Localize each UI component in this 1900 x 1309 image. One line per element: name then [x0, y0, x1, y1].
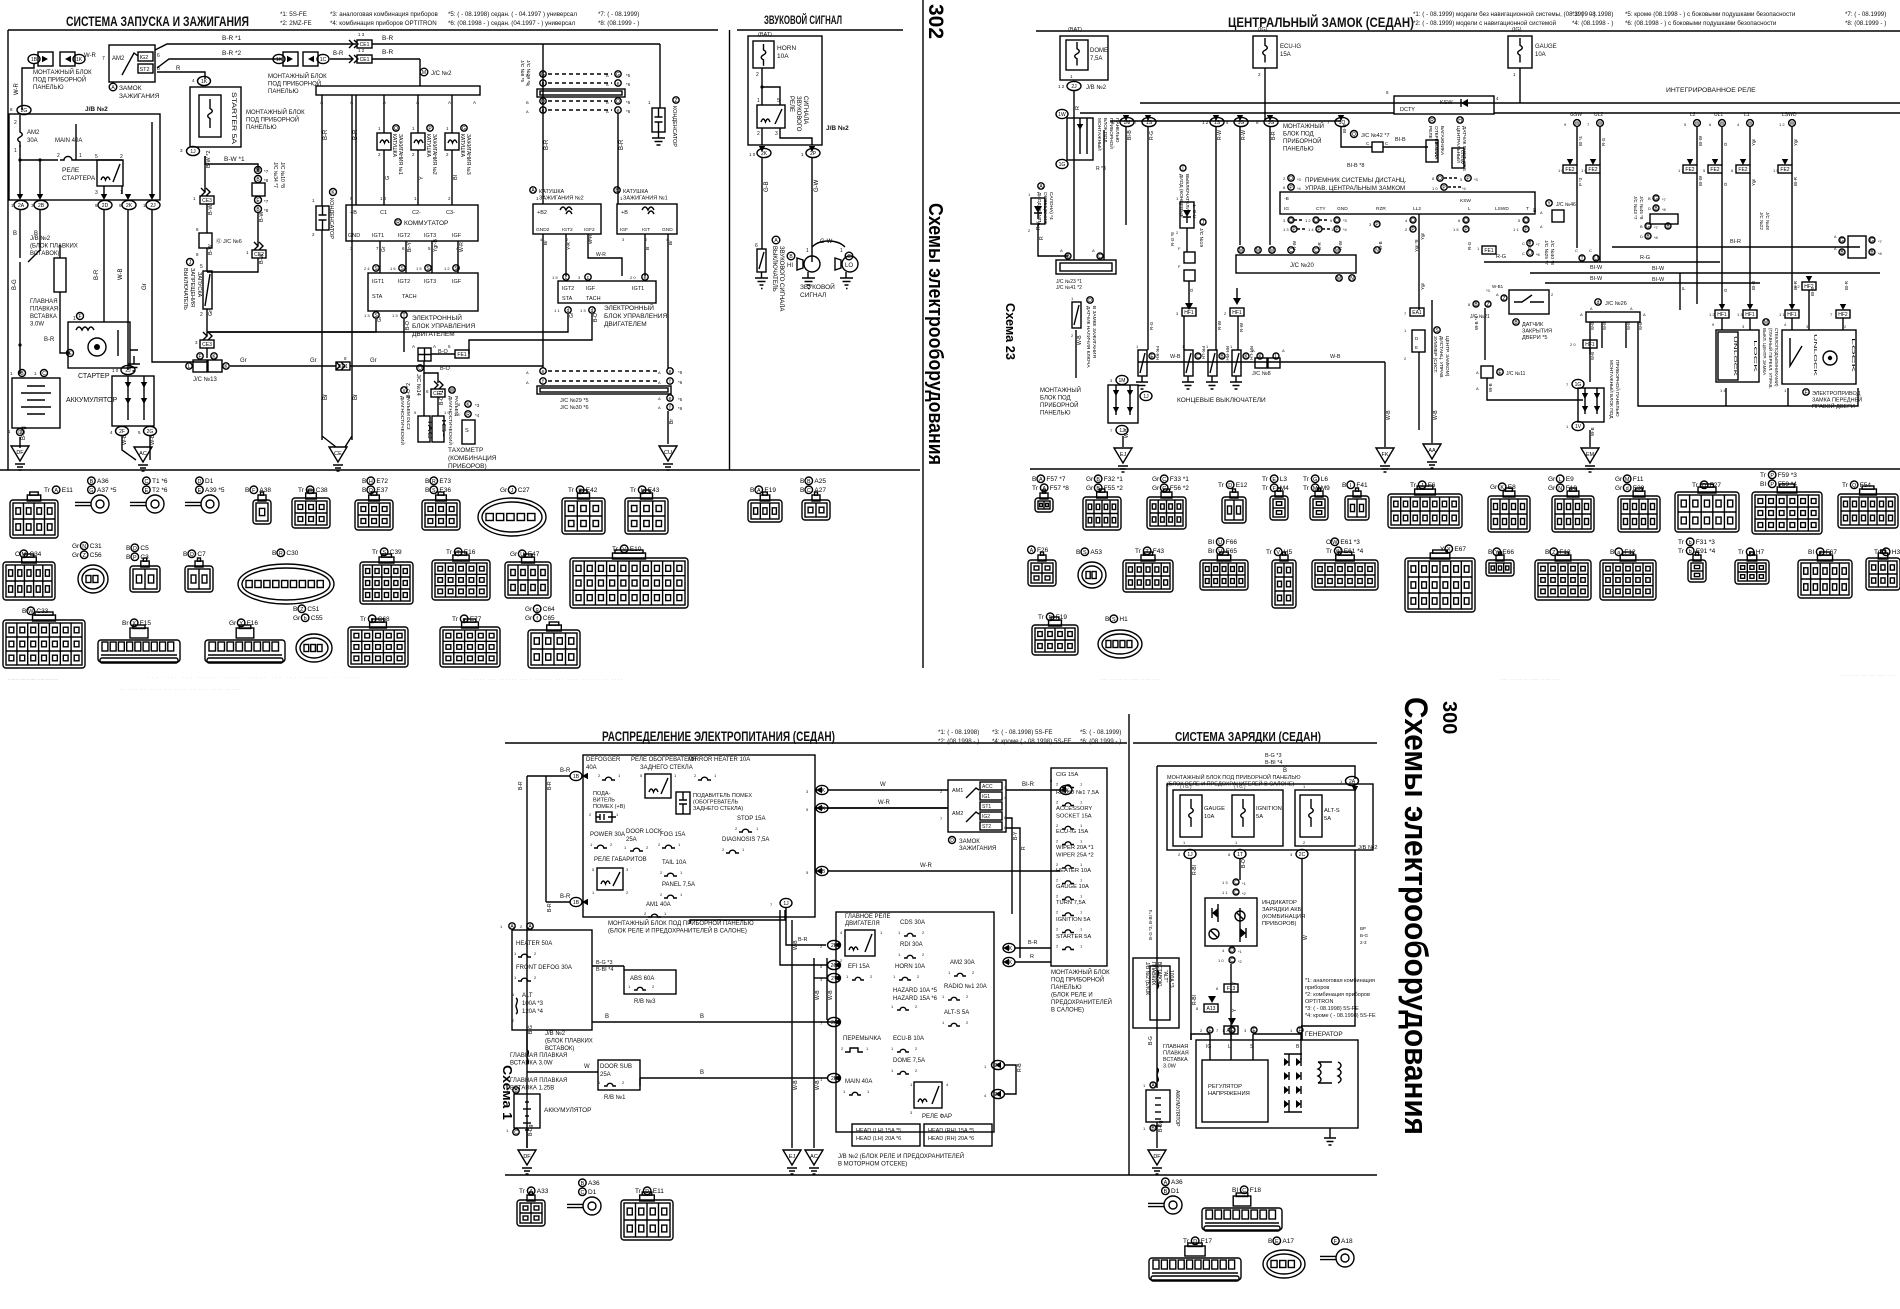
engine JB right ovals	[984, 1060, 1005, 1098]
svg-text:1 3: 1 3	[1222, 880, 1228, 885]
svg-text:Gr: Gr	[1152, 476, 1160, 483]
wire Ygr vertical	[1418, 214, 1420, 310]
svg-text:*8: (08.1999 - ): *8: (08.1999 - )	[1845, 20, 1886, 27]
svg-text:Ygr: Ygr	[1420, 232, 1425, 240]
small box GSW	[1452, 148, 1465, 168]
horn low	[835, 256, 858, 272]
svg-text:OPTITRON: OPTITRON	[1305, 999, 1333, 1005]
horn high	[797, 256, 820, 272]
svg-text:W-R: W-R	[596, 252, 606, 258]
svg-text:HEATER 10A: HEATER 10A	[1056, 868, 1091, 874]
svg-text:J/C №41 *2: J/C №41 *2	[1056, 285, 1082, 291]
svg-text:Br: Br	[543, 240, 549, 245]
buzzer D E boxes	[1404, 328, 1425, 361]
relay horn	[757, 98, 785, 137]
svg-text:ЦЕНТРАЛЬНЫЙ ЗАМОК (СЕДАН): ЦЕНТРАЛЬНЫЙ ЗАМОК (СЕДАН)	[1228, 13, 1414, 30]
svg-text:B-O: B-O	[440, 366, 451, 372]
svg-text:G-W: G-W	[814, 179, 820, 192]
ground AC	[134, 447, 152, 471]
svg-text:*2: (08.1998 - ): *2: (08.1998 - )	[938, 738, 979, 745]
svg-text:BI-B: BI-B	[1810, 287, 1815, 296]
fuse MAIN 40A	[18, 138, 122, 162]
svg-text:DOME: DOME	[1090, 48, 1108, 54]
fuse defogger	[598, 773, 621, 780]
wire B second	[28, 210, 40, 262]
svg-text:МОНТАЖНЫЙ БЛОК: МОНТАЖНЫЙ БЛОК	[1051, 968, 1110, 976]
svg-text:*5: *5	[626, 100, 631, 105]
svg-text:BP: BP	[1360, 926, 1366, 931]
svg-text:STOP 15A: STOP 15A	[737, 816, 765, 822]
verticals W-B center with grounds	[792, 920, 834, 1148]
svg-text:TACH: TACH	[586, 296, 601, 302]
dashed junction bus top right	[519, 60, 631, 114]
svg-text:B: B	[1076, 549, 1080, 556]
svg-text:МОНТАЖНЫЙ: МОНТАЖНЫЙ	[1040, 386, 1081, 394]
svg-text:HAZARD 10A *5: HAZARD 10A *5	[893, 988, 938, 994]
svg-text:1: 1	[806, 248, 809, 254]
svg-text:ЦЕНТР. ЗАМКОМ): ЦЕНТР. ЗАМКОМ)	[1444, 336, 1450, 377]
svg-text:Br-Y: Br-Y	[407, 241, 413, 252]
svg-text:BI-W: BI-W	[1652, 266, 1665, 272]
svg-text:Gr: Gr	[500, 487, 508, 494]
svg-text:Tr: Tr	[519, 1188, 526, 1195]
fuse panel right box	[1051, 768, 1107, 966]
relay bus top line	[1140, 102, 1900, 104]
svg-text:(ОБОГРЕВАТЕЛЬ: (ОБОГРЕВАТЕЛЬ	[693, 800, 739, 806]
connector F6	[1410, 481, 1436, 489]
wire TACH B-O down	[403, 319, 405, 352]
svg-text:ST1: ST1	[982, 804, 991, 810]
svg-text:UL2: UL2	[1594, 112, 1603, 118]
svg-text:AC: AC	[139, 451, 147, 457]
svg-text:J/C №11: J/C №11	[1506, 371, 1526, 377]
svg-text:B-O *1: B-O *1	[439, 390, 445, 405]
fuse IGNITION 5A charging	[1232, 784, 1282, 845]
svg-text:Tr: Tr	[1262, 485, 1269, 492]
svg-text:W-R: W-R	[459, 242, 465, 252]
fuse AM1 40A	[644, 902, 671, 917]
label LO	[840, 248, 853, 269]
svg-text:... .... ... ...... .... .....: ... .... ... ...... .... ...... ... ....…	[120, 686, 240, 691]
svg-text:DF: DF	[16, 450, 24, 456]
svg-text:ВЫКЛЮЧАТЕЛИ): ВЫКЛЮЧАТЕЛИ)	[1184, 174, 1190, 213]
starter motor	[68, 313, 138, 381]
svg-text:W-B: W-B	[793, 940, 799, 950]
svg-text:B: B	[1648, 196, 1651, 201]
relay headlight	[910, 1082, 952, 1120]
junction A13 boxes	[1196, 996, 1238, 1034]
svg-text:1: 1	[79, 153, 82, 159]
svg-text:W: W	[1575, 121, 1580, 127]
svg-text:*1: аналоговая комбинация: *1: аналоговая комбинация	[1305, 978, 1375, 984]
connector C38	[298, 486, 328, 494]
svg-text:J/C №26: J/C №26	[1605, 301, 1627, 307]
svg-text:C31: C31	[90, 543, 102, 550]
svg-text:J/C №2: J/C №2	[431, 70, 452, 77]
svg-text:B: B	[126, 545, 130, 552]
svg-text:Q: Q	[1289, 218, 1293, 224]
svg-text:ПОД ПРИБОРНОЙ: ПОД ПРИБОРНОЙ	[33, 76, 86, 84]
svg-text:25A: 25A	[600, 1072, 611, 1078]
svg-text:ПРИБОРНОЙ: ПРИБОРНОЙ	[1040, 401, 1078, 409]
svg-text:R: R	[396, 220, 400, 226]
svg-text:BI-B: BI-B	[1127, 130, 1133, 140]
connector E9 F10	[1548, 475, 1574, 483]
svg-text:ПРИБОРНОЙ: ПРИБОРНОЙ	[1283, 137, 1321, 145]
svg-text:Tr: Tr	[298, 487, 305, 494]
svg-text:МОНТАЖНЫЙ БЛОК: МОНТАЖНЫЙ БЛОК	[33, 68, 92, 76]
svg-text:E11: E11	[653, 1188, 664, 1195]
svg-text:5: 5	[95, 154, 98, 160]
svg-text:W-R: W-R	[920, 863, 933, 869]
svg-text:Tr: Tr	[1760, 472, 1767, 479]
svg-text:B-R: B-R	[619, 139, 625, 150]
svg-text:Q: Q	[1411, 218, 1415, 224]
svg-text:Gr: Gr	[1490, 484, 1498, 491]
connector F18	[1232, 1186, 1261, 1194]
svg-text:1J: 1J	[1143, 394, 1149, 400]
svg-text:ГЛАВНАЯ: ГЛАВНАЯ	[30, 299, 58, 305]
connector F41	[1342, 481, 1368, 489]
bus bar	[316, 86, 480, 95]
svg-text:ПРЕДОХРАНИТЕЛЕЙ: ПРЕДОХРАНИТЕЛЕЙ	[1051, 998, 1112, 1006]
svg-text:F18: F18	[1250, 1187, 1262, 1194]
svg-text:EM: EM	[1586, 452, 1595, 458]
svg-text:*3: ( - 08.1998) 5S-FE: *3: ( - 08.1998) 5S-FE	[1305, 1006, 1359, 1012]
svg-text:B: B	[1610, 549, 1614, 556]
svg-text:(BAT): (BAT)	[758, 32, 772, 38]
svg-text:BI-B: BI-B	[1342, 124, 1347, 133]
svg-text:КОНДЕНСАТОР: КОНДЕНСАТОР	[671, 106, 677, 147]
svg-text:HF1: HF1	[1184, 310, 1194, 316]
svg-text:Gr: Gr	[142, 283, 148, 290]
fuse ABS 60A box	[624, 970, 676, 1005]
svg-text:R-G: R-G	[1149, 321, 1154, 330]
left JB fusible links box	[512, 930, 592, 1030]
svg-text:B-G *3: B-G *3	[1265, 753, 1282, 759]
svg-text:AM1 40A: AM1 40A	[646, 902, 671, 908]
svg-text:B-G: B-G	[12, 279, 18, 290]
ECM right box	[558, 281, 656, 303]
label J/B No2 fusible charging left	[1144, 962, 1162, 995]
svg-text:B: B	[1032, 476, 1036, 483]
connector E10	[612, 545, 642, 553]
junction block J/B No2 main	[9, 114, 160, 200]
svg-text:302: 302	[924, 4, 947, 39]
svg-text:H: H	[1458, 118, 1462, 124]
svg-text:B-R: B-R	[560, 768, 571, 774]
connector C31 C56 oval	[72, 542, 102, 550]
connector E66	[1488, 548, 1514, 556]
wire W-B star4 door sensor	[1484, 308, 1486, 360]
svg-text:1J: 1J	[1187, 852, 1193, 858]
svg-text:A: A	[448, 100, 451, 105]
svg-text:1: 1	[73, 316, 76, 322]
svg-text:DOOR SUB: DOOR SUB	[600, 1064, 632, 1070]
connector E11	[44, 486, 73, 494]
svg-text:BI-R: BI-R	[1022, 782, 1035, 788]
ground starter	[128, 356, 140, 371]
svg-text:B: B	[526, 100, 529, 105]
svg-text:B: B	[1105, 616, 1109, 623]
receiver header pins	[1283, 175, 1479, 191]
svg-text:ЗАЖИГАНИЯ: ЗАЖИГАНИЯ	[119, 93, 160, 100]
fuse ALT 100A	[512, 992, 544, 1023]
ground EJ	[1114, 448, 1132, 472]
svg-text:B-R: B-R	[560, 894, 571, 900]
svg-text:1M: 1M	[1119, 378, 1126, 384]
generator internal pins	[1206, 1044, 1300, 1050]
svg-text:SOCKET 15A: SOCKET 15A	[1056, 814, 1092, 820]
fuse FOG 15A	[658, 832, 685, 848]
svg-text:Tr: Tr	[1262, 476, 1269, 483]
svg-text:GND: GND	[1337, 206, 1348, 212]
junction JC 43 45 column	[1633, 195, 1678, 240]
svg-text:Tr: Tr	[446, 549, 453, 556]
svg-text:1 2: 1 2	[444, 266, 450, 271]
wire W down from ALT-S	[1301, 859, 1303, 1040]
svg-text:Q: Q	[1524, 218, 1528, 224]
svg-text:B-O: B-O	[405, 321, 411, 330]
junction J/C No2 label	[420, 68, 452, 77]
svg-text:Q: Q	[1464, 218, 1468, 224]
generator box	[1196, 1040, 1358, 1128]
wire B-Dg battery down	[8, 426, 27, 448]
svg-text:B-R: B-R	[1271, 131, 1277, 140]
svg-text:ГЛАВНОЕ РЕЛЕ: ГЛАВНОЕ РЕЛЕ	[845, 914, 890, 920]
svg-text:Tr: Tr	[1303, 476, 1310, 483]
svg-text:F55 *2: F55 *2	[1104, 485, 1124, 492]
connector E73 E36	[425, 477, 451, 485]
fuse FRONT DEFOG 30A	[514, 965, 572, 981]
svg-text:D1: D1	[588, 1189, 597, 1196]
ring terminal A18	[1332, 1237, 1353, 1245]
svg-text:Tr: Tr	[635, 1188, 642, 1195]
svg-text:2K: 2K	[126, 203, 133, 209]
junction JC No21	[1468, 301, 1491, 320]
svg-text:ДВИГАТЕЛЕМ: ДВИГАТЕЛЕМ	[604, 321, 647, 328]
ECM bottom pins	[364, 312, 407, 319]
svg-text:J/C №48: J/C №48	[1765, 212, 1770, 230]
wire B-Dg power distr	[526, 1128, 528, 1148]
svg-text:E: E	[198, 488, 202, 494]
ignition coil No2 right	[533, 196, 601, 242]
svg-text:Y-R: Y-R	[566, 242, 572, 250]
svg-text:1 1: 1 1	[1222, 890, 1228, 895]
svg-text:1 9: 1 9	[444, 410, 450, 415]
svg-text:ТАХОМЕТР: ТАХОМЕТР	[448, 447, 483, 454]
svg-text:ИНТЕГРИРОВАННОЕ РЕЛЕ: ИНТЕГРИРОВАННОЕ РЕЛЕ	[1666, 87, 1756, 94]
svg-text:DF: DF	[1153, 1154, 1161, 1160]
svg-text:IG-: IG-	[440, 419, 446, 438]
svg-text:W: W	[1790, 121, 1795, 127]
svg-text:7: 7	[102, 56, 105, 62]
svg-text:M: M	[1625, 477, 1630, 483]
connector C51 C55 oval	[293, 605, 320, 613]
charge indicator box	[1205, 898, 1257, 946]
svg-text:РЕЛЕ: РЕЛЕ	[788, 96, 794, 112]
svg-text:E: E	[145, 488, 149, 494]
junction block 2J	[110, 365, 157, 435]
svg-text:FE2: FE2	[1565, 167, 1574, 173]
wire B-O ECM right	[469, 314, 592, 354]
svg-text:F: F	[78, 314, 81, 320]
battery charging	[1143, 1082, 1180, 1132]
wire B left	[19, 210, 21, 258]
svg-text:b: b	[1689, 540, 1692, 546]
svg-text:1 8: 1 8	[454, 412, 460, 417]
svg-text:ЗАЖИГАНИЯ №3: ЗАЖИГАНИЯ №3	[465, 134, 471, 175]
svg-text:P: P	[1770, 482, 1774, 488]
svg-text:АККУМУЛЯТОР: АККУМУЛЯТОР	[1174, 1090, 1180, 1127]
svg-text:DOME 7,5A: DOME 7,5A	[893, 1058, 925, 1064]
svg-text:СТАРТЕРА: СТАРТЕРА	[62, 175, 96, 182]
svg-text:M: M	[422, 70, 426, 76]
svg-text:J/C №13: J/C №13	[193, 376, 217, 383]
svg-text:IG2: IG2	[982, 814, 990, 820]
svg-text:*1: ( - 08.1998): *1: ( - 08.1998)	[938, 729, 979, 736]
generator diode bridge	[1284, 1054, 1302, 1112]
svg-text:MAIN 40A: MAIN 40A	[845, 1079, 872, 1085]
svg-text:C: C	[1289, 248, 1293, 254]
svg-text:C: C	[144, 479, 148, 485]
svg-text:A: A	[526, 380, 529, 385]
svg-text:C: C	[580, 1190, 584, 1196]
svg-text:B: B	[800, 478, 804, 485]
svg-text:C5: C5	[140, 545, 149, 552]
connector L3 M4	[1262, 475, 1287, 483]
connector H3	[1874, 548, 1900, 556]
svg-text:ГЛАВНАЯ ПЛАВКАЯ: ГЛАВНАЯ ПЛАВКАЯ	[510, 1053, 567, 1059]
svg-text:1 2: 1 2	[358, 48, 365, 53]
svg-text:A: A	[658, 405, 661, 410]
svg-text:B-W *1: B-W *1	[224, 156, 245, 163]
wire B-R bus drop 1	[321, 95, 323, 206]
svg-text:БЛОК ПОД: БЛОК ПОД	[1040, 396, 1071, 402]
svg-text:F31 *3: F31 *3	[1696, 539, 1716, 546]
svg-text:R-W: R-W	[1241, 130, 1247, 140]
oval pins top of left JB	[500, 923, 533, 930]
svg-text:BI-W: BI-W	[1698, 175, 1703, 186]
svg-text:*6: *6	[678, 406, 683, 411]
svg-text:A27: A27	[814, 487, 826, 494]
svg-text:W-B: W-B	[1386, 410, 1392, 420]
svg-text:B: B	[800, 487, 804, 494]
bottom oval connectors of JB No2	[11, 194, 160, 210]
svg-text:1 1: 1 1	[1513, 227, 1519, 232]
label coil 2	[425, 125, 437, 175]
svg-text:Gr: Gr	[377, 316, 383, 322]
label ignition lock power distr	[949, 837, 997, 853]
svg-text:T: T	[1526, 206, 1529, 212]
svg-text:FE1: FE1	[1484, 248, 1493, 254]
svg-text:Q: Q	[1314, 218, 1318, 224]
charging JB outer box	[1167, 784, 1373, 850]
voltage regulator box	[1202, 1060, 1268, 1122]
svg-text:B-G: B-G	[528, 1025, 534, 1034]
svg-text:Y: Y	[419, 176, 425, 180]
wire B-G battery column	[526, 1030, 528, 1050]
svg-text:(IG): (IG)	[1512, 27, 1522, 33]
svg-text:UL1: UL1	[1714, 112, 1723, 118]
svg-text:W-R: W-R	[84, 53, 97, 59]
svg-text:B: B	[807, 479, 811, 485]
svg-text:Gr: Gr	[525, 615, 533, 622]
svg-text:W-B: W-B	[118, 268, 124, 280]
label capacitor K	[328, 189, 337, 240]
wire B-O star2 down	[423, 373, 425, 416]
svg-text:ВИТЕЛЬ: ВИТЕЛЬ	[593, 798, 615, 804]
svg-text:C: C	[1314, 248, 1318, 254]
svg-text:BI: BI	[1760, 481, 1766, 488]
svg-text:W: W	[450, 388, 455, 394]
svg-text:D: D	[1193, 1239, 1197, 1245]
svg-text:МОНТАЖНЫЙ БЛОК: МОНТАЖНЫЙ БЛОК	[246, 108, 305, 116]
svg-text:CE1: CE1	[360, 57, 370, 63]
svg-text:*6: (08.1998 - ) седан. (04.19: *6: (08.1998 - ) седан. (04.1997 - ) уни…	[448, 20, 576, 27]
wire W-R long vertical	[815, 808, 948, 871]
svg-text:N: N	[82, 544, 86, 550]
svg-text:b: b	[1689, 549, 1692, 555]
svg-text:ПОДАВИТЕЛЬ ПОМЕХ: ПОДАВИТЕЛЬ ПОМЕХ	[693, 793, 752, 799]
svg-text:2F: 2F	[119, 429, 125, 435]
svg-text:W: W	[1695, 121, 1700, 127]
svg-text:FRONT DEFOG 30A: FRONT DEFOG 30A	[516, 965, 572, 971]
svg-text:A13: A13	[1207, 1006, 1216, 1012]
svg-text:J/C №46: J/C №46	[1556, 202, 1576, 208]
svg-text:W-B: W-B	[1170, 354, 1181, 360]
svg-text:TACH: TACH	[402, 294, 417, 300]
mounting block bottom right	[1566, 379, 1604, 430]
connector F19	[1038, 613, 1067, 621]
svg-text:C65: C65	[543, 615, 555, 622]
wire B-R to starter	[60, 345, 70, 353]
svg-text:1V: 1V	[1575, 424, 1582, 430]
svg-text:J/C №8 *5: J/C №8 *5	[519, 60, 525, 83]
junction HF1 20	[1570, 340, 1597, 348]
svg-text:.... ...... ... .... ..... ...: .... ...... ... .... ..... ....	[1840, 672, 1895, 677]
svg-text:Tr: Tr	[1326, 548, 1333, 555]
svg-text:1: 1	[840, 248, 843, 254]
svg-text:Ygr: Ygr	[1793, 138, 1798, 146]
svg-text:Q: Q	[190, 552, 194, 558]
svg-text:Tr: Tr	[568, 487, 575, 494]
commutator	[346, 196, 478, 251]
svg-text:10A: 10A	[777, 53, 789, 60]
svg-text:R: R	[1039, 236, 1045, 240]
connector H5	[1266, 548, 1292, 556]
label coil No1 right	[614, 187, 668, 202]
connector F12	[1610, 548, 1636, 556]
svg-text:IGT2: IGT2	[398, 279, 410, 285]
wire B-R star1 bus	[155, 44, 356, 50]
svg-text:1 6: 1 6	[390, 266, 396, 271]
svg-text:B: B	[1545, 549, 1549, 556]
relay taillight	[592, 857, 647, 895]
svg-text:2: 2	[14, 120, 17, 126]
svg-text:Gr: Gr	[1548, 476, 1556, 483]
header notes right	[1413, 11, 1886, 27]
connector F16	[229, 619, 258, 627]
svg-text:(ГЛАВНЫЙ ПЕРЕКЛ. УПРАВ.: (ГЛАВНЫЙ ПЕРЕКЛ. УПРАВ.	[1768, 328, 1775, 389]
wire R down left	[1038, 224, 1068, 256]
svg-text:2K: 2K	[761, 151, 768, 157]
svg-text:GSW: GSW	[1460, 150, 1465, 164]
svg-text:H3: H3	[1892, 549, 1900, 556]
svg-text:DOOR LOCK: DOOR LOCK	[626, 829, 662, 835]
svg-text:Q: Q	[1852, 483, 1856, 489]
svg-text:ЗАЖИГАНИЯ №2: ЗАЖИГАНИЯ №2	[431, 134, 437, 175]
